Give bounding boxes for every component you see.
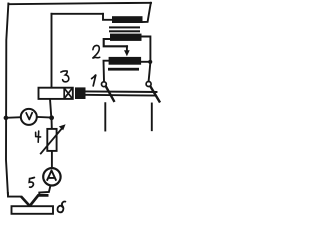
wire step to winding T1 bbox=[103, 14, 112, 20]
ammeter A bbox=[43, 168, 60, 185]
wire inner top bbox=[52, 13, 104, 15]
wire T1 secondary right to switch S2 bbox=[142, 37, 151, 82]
rheostat 4 body bbox=[47, 129, 56, 151]
switch S1 pivot contact bbox=[102, 82, 107, 87]
wire outer top bbox=[8, 3, 151, 4]
switch S2 pivot contact bbox=[146, 82, 151, 87]
thermocouple lead upper bbox=[86, 90, 157, 93]
support base plate bbox=[12, 206, 54, 214]
wire ammeter to support bbox=[39, 186, 50, 196]
wire right frame edge down to winding bbox=[143, 3, 151, 22]
arrow head onto furnace 2 bbox=[124, 50, 130, 56]
furnace 2 hearth line bbox=[108, 68, 139, 71]
junction dot right bbox=[148, 60, 152, 64]
rheostat 4 arrow bbox=[40, 127, 63, 155]
label 4 bbox=[36, 131, 41, 142]
wire node to rheostat 4 bbox=[51, 118, 53, 129]
label 1 bbox=[92, 75, 96, 86]
junction dot left (V branch) bbox=[4, 116, 9, 121]
transformer T1 primary winding (solid bar) bbox=[112, 16, 143, 23]
wire furnace right junction bbox=[141, 61, 150, 63]
crucible 3 body bbox=[39, 88, 73, 99]
thermocouple lead lower bbox=[86, 94, 156, 97]
junction dot node A bbox=[49, 115, 54, 120]
crucible 3 X diagonals bbox=[65, 89, 73, 99]
support 5 funnel right shoulder bbox=[30, 195, 49, 205]
label 5 bbox=[29, 178, 34, 188]
transformer T1 secondary winding (solid bar) bbox=[110, 34, 142, 41]
crucible 3 divider bbox=[63, 88, 65, 99]
wire left down-lead to support bbox=[8, 193, 21, 197]
wire V-meter to node bbox=[36, 116, 51, 119]
wire arrow stem onto furnace 2 bbox=[126, 46, 128, 51]
transformer T1 core line lower bbox=[109, 30, 140, 32]
switch S2 lower stub bbox=[151, 104, 153, 131]
furnace 2 heater bar bbox=[109, 57, 142, 65]
wire furnace left to switch S1 bbox=[104, 61, 109, 82]
wire crucible 3 bottom stub bbox=[50, 99, 51, 117]
crucible 3 black tip bbox=[75, 87, 86, 99]
switch S2 blade bbox=[150, 86, 159, 102]
wire inner vertical bbox=[51, 14, 53, 88]
label 2 bbox=[92, 45, 99, 58]
switch S1 lower stub bbox=[104, 103, 106, 130]
label b bbox=[57, 202, 65, 213]
voltmeter V bbox=[21, 109, 37, 125]
support 5 funnel left slope bbox=[21, 197, 29, 206]
wire rheostat to ammeter bbox=[51, 151, 53, 167]
label 3 bbox=[61, 71, 69, 82]
wire outer left vertical bbox=[6, 4, 8, 195]
transformer T1 core line upper bbox=[109, 26, 140, 28]
wire V-meter branch bbox=[6, 116, 21, 119]
switch S1 blade bbox=[106, 86, 114, 101]
wire T1 secondary left to arrow bbox=[104, 39, 127, 46]
